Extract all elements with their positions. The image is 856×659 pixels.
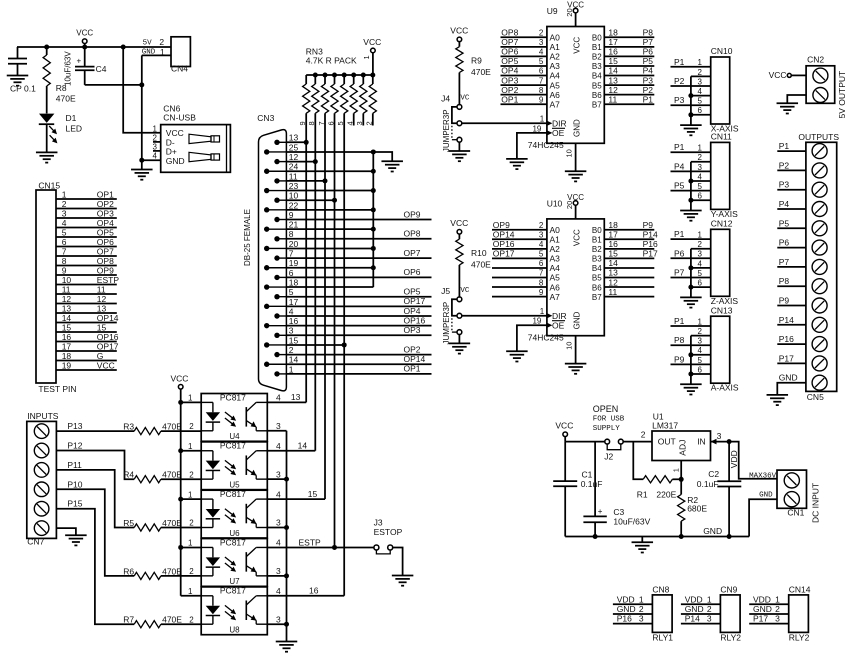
wire RN3 r5 to U8 pin4 net 16 [343,113,345,596]
U4 light arrows [225,412,236,427]
svg-text:11: 11 [289,171,298,181]
ground at rail [632,537,654,553]
U9 OE arrow [546,130,552,136]
svg-text:470E: 470E [162,566,182,576]
svg-text:3: 3 [62,208,67,218]
label CN15 net 11 [97,284,106,294]
U9 DIR arrow [546,121,552,127]
U6 light arrows [225,509,236,524]
label net OP16 [404,315,426,325]
svg-text:470E: 470E [162,470,182,480]
label net P1 at CN12 [674,229,685,239]
svg-text:P17: P17 [753,614,768,624]
svg-text:R5: R5 [123,518,134,528]
label R8 [56,83,67,93]
svg-text:B2: B2 [592,53,602,62]
label U9 B5 [592,81,602,90]
wire U9 B7 pin11 [604,103,654,105]
wire U10 A6 pin8 [492,286,547,288]
junction dot RN3 bus r2 [370,73,375,78]
svg-text:SUPPLY: SUPPLY [593,425,621,433]
wire CN15 pin 14 [56,322,117,324]
label U9 pin12 number [608,85,618,95]
label CN12 [711,219,733,229]
label U1 pin1 number [672,468,681,472]
wire CN12 pin6 [691,286,711,288]
svg-text:1: 1 [672,468,681,472]
label net OP8 at U9 [501,28,518,38]
label U10 pin15 number [608,249,618,259]
svg-text:P11: P11 [67,460,82,470]
svg-text:+: + [77,57,82,66]
svg-text:1: 1 [153,124,158,133]
label net P9 at CN13 [674,354,685,364]
label OPEN [593,404,619,414]
label U10 pin14 number [608,258,618,268]
ground at U10 OE [506,351,528,361]
wire U10 OE to ground [517,325,547,351]
label U7 pin3 number [276,566,281,576]
wire J5 to U10 DIR [462,315,547,317]
svg-text:OUT: OUT [658,436,676,446]
wire CN5 GND pin [777,383,806,395]
label CN3 pin 3 number [289,326,294,336]
label net OP17 [404,296,426,306]
CN3 pin 7 contact dot [274,255,286,260]
wire J4 shunt 1-2 [452,107,457,123]
wire CN12 pin4 [691,267,711,269]
label U9 74HC245 [528,140,564,150]
svg-text:6: 6 [698,279,703,288]
junction dot CN13 pin4 [688,352,693,357]
label U10 pin6 number [539,259,544,268]
svg-text:JUMPER3P: JUMPER3P [442,302,451,345]
wire J5 pin3 to ground [458,335,460,344]
svg-text:470E: 470E [471,67,491,77]
svg-text:VCC: VCC [567,193,584,202]
U8 phototransistor [246,596,267,624]
label GND rail [703,526,722,536]
label A-AXIS [711,383,739,393]
wire CN3 pin 16 [286,325,431,327]
label CN3 pin 2 number [289,345,294,355]
label CN8 [652,585,669,595]
svg-text:3: 3 [539,38,544,47]
label U10 pin12 number [608,277,618,287]
label U10 A2 [550,244,561,254]
label CN10 pin4 number [698,87,703,96]
wire CN15 pin 1 [56,198,117,200]
label CN15 net OP4 [97,218,114,228]
label net P7 at CN5 [779,257,790,267]
wire CN11 pin1 [671,151,711,153]
svg-text:1: 1 [188,442,193,451]
wire CN13 pin1 [671,325,711,327]
svg-text:5: 5 [62,227,67,237]
svg-text:12: 12 [608,277,618,287]
svg-text:OP17: OP17 [97,341,119,351]
label net OP16 at U10 [493,239,515,249]
wire CN13 pin4 [691,354,711,356]
svg-text:14: 14 [298,441,308,451]
resistor RN3 element 8 [312,75,319,113]
wire U10 B0 pin18 [604,229,654,231]
wire CN5 pin P16 [777,343,806,345]
CN7 screw 6 [34,521,49,536]
wire CN11 pin5 [671,190,711,192]
svg-text:19: 19 [532,317,541,326]
svg-text:4: 4 [276,586,281,596]
U10 OE arrow [546,323,552,329]
resistor R1 [643,476,681,483]
label U8 pin4 number [276,586,281,596]
label U9 B7 [592,100,602,109]
wire CN11 pin3 [671,170,711,172]
svg-text:OP5: OP5 [501,56,518,66]
wire CN5 pin P17 [777,362,806,364]
wire CN5 pin P2 [777,169,806,171]
label net P12 [67,441,82,451]
svg-text:CN-USB: CN-USB [163,113,196,123]
svg-text:B3: B3 [592,62,602,71]
wire CN15 pin 11 [56,293,117,295]
svg-text:CN4: CN4 [171,64,188,74]
wire CN3 pin 24 [286,170,373,172]
svg-text:P3: P3 [779,180,790,190]
label CN11 [711,132,732,142]
label CN3 pin 5 number [289,287,294,297]
label U10 pin18 number [608,220,618,230]
svg-text:A3: A3 [550,254,561,264]
svg-text:P17: P17 [643,249,658,259]
wire CN3 pin 2 [286,354,431,356]
label CN9 pin1 number [707,594,712,604]
ground at CN12 [680,287,702,308]
label RLY1 at CN8 [652,632,673,642]
label C1 [582,469,593,479]
label VC at J5 [460,287,470,295]
label CN15 pin 17 number [62,341,72,351]
label U10 pin16 number [608,239,618,249]
wire CN15 pin 8 [56,265,117,267]
label U6 pin3 number [276,518,281,528]
svg-text:3: 3 [276,614,281,624]
ground under CN6 [131,160,153,180]
label CN3 pin 19 number [289,258,299,268]
wire U10 A1 pin3 [492,238,547,240]
CN5 screw 11 [812,337,827,352]
label CN15 pin 2 number [62,199,67,209]
junction dot C3/gnd rail [593,534,598,539]
svg-text:B7: B7 [592,293,602,302]
label U5 pin2 number [189,470,194,479]
resistor RN3 element 3 [360,75,367,113]
wire OUT branch down to R1 [633,442,643,480]
label CN4 pin2 5V [143,39,153,47]
svg-text:RLY1: RLY1 [652,632,673,642]
label net P17 at CN14 [753,614,768,624]
svg-text:9: 9 [289,210,294,220]
svg-text:OP9: OP9 [404,209,421,219]
label CN15 net OP8 [97,256,114,266]
svg-text:13: 13 [608,75,618,85]
label net P1 at CN13 [674,316,685,326]
wire VCC to CN2 pin1 [791,74,806,76]
wire CN6 pin2 stub [153,141,161,143]
label U10 A7 [550,292,561,302]
wire CN9 pin2 [681,613,721,615]
junction dot RN3 bus r7 [323,73,328,78]
label net P16 at CN8 [617,614,632,624]
label C4 value 10uF/63V [64,51,73,86]
wire U5 pin4 [267,450,315,452]
svg-text:JUMPER3P: JUMPER3P [442,109,451,152]
junction dot RN3 bus r5 [342,73,347,78]
svg-text:6: 6 [539,259,544,268]
label U10 B6 [592,283,602,292]
wire U9 A7 pin9 [501,103,547,105]
label PC817 U7 [220,537,246,547]
svg-text:1: 1 [188,539,193,548]
connector CN9 body [720,595,740,633]
svg-text:470E: 470E [471,259,491,269]
svg-text:680E: 680E [687,504,707,514]
CN7 screw 1 [34,424,49,439]
wire CN11 pin6 [691,199,711,201]
wire CN12 pin2 [691,248,711,250]
label net P14 at CN9 [685,614,700,624]
label U10 A1 [550,234,561,244]
label CN15 pin 8 number [62,256,67,266]
wire CN15 pin 18 [56,360,117,362]
label net OP6 at U9 [501,47,518,57]
svg-text:DC INPUT: DC INPUT [811,483,821,523]
label U1 IN [697,436,706,446]
label CN4 pin2 number [159,37,164,47]
svg-text:VCC: VCC [171,373,189,383]
CN3 pin 25 contact dot [264,149,286,154]
svg-text:19: 19 [289,258,299,268]
svg-text:B5: B5 [592,81,602,90]
svg-text:15: 15 [608,56,618,66]
label CN10 pin3 number [698,77,703,86]
svg-text:OP6: OP6 [404,267,421,277]
wire VCC branch to CN6 pin1 [123,47,161,133]
svg-text:7: 7 [539,76,544,85]
svg-text:B1: B1 [592,43,602,52]
U10 DIR arrow [546,313,552,319]
U4 LED [201,402,220,430]
ground under D1 [36,152,58,162]
junction dot pin13/pullup [304,140,309,145]
ground at opto bus [276,642,298,652]
svg-text:P2: P2 [643,85,654,95]
svg-text:2: 2 [153,133,158,142]
junction dot pin19/gnd-bus [371,265,376,270]
label INPUTS [27,411,59,421]
label CN10 pin5 number [698,97,703,106]
label U9 pin11 number [608,94,617,104]
label U4 pin3 number [276,421,281,431]
label U4 pin1 number [188,394,193,403]
CN6 usb contact lower [189,152,220,161]
label CN6 pin3 number [153,143,158,152]
svg-text:3: 3 [276,566,281,576]
ground at CN10 [680,115,702,136]
svg-text:R7: R7 [123,615,134,625]
label U9 B3 [592,62,602,71]
wire U7 pin1 [181,546,202,548]
label net OP3 at U9 [501,75,518,85]
connector CN13 body [711,316,730,383]
label net P6 at CN12 [674,248,685,258]
jumper J4 pin1 circle [457,105,462,110]
junction dot pin25/gnd-bus [371,149,376,154]
wire U8 pin3 [267,623,286,625]
junction dot pin12/pullup [313,159,318,164]
svg-text:R4: R4 [123,470,134,480]
wire RN3 common bus [306,74,373,76]
svg-text:PC817: PC817 [220,489,246,499]
wire CN3 pin 1 [286,373,431,375]
wire CN3 pin 25 [286,151,373,153]
label CN15 pin 14 number [62,313,72,323]
label CN3 [257,113,274,123]
svg-text:17: 17 [608,229,618,239]
svg-text:14: 14 [289,355,299,365]
svg-text:3: 3 [698,77,703,86]
label net P5 at CN5 [779,218,790,228]
wire U9 OE to ground [517,133,547,159]
svg-text:OP3: OP3 [404,325,421,335]
svg-text:8: 8 [539,86,544,95]
label R3 [123,422,134,432]
label CN9 pin2 number [707,604,712,614]
CN5 screw 9 [812,298,827,313]
svg-text:GND: GND [753,604,772,614]
CN3 pin 5 contact dot [274,294,286,299]
wire VCC to J2 [565,441,605,443]
svg-text:VCC: VCC [450,218,468,228]
wire CN12 ground bus [690,249,692,287]
label CN3 pin 20 number [289,239,299,249]
label U1 pin2 number [641,430,646,440]
junction dot pin21/gnd-bus [371,227,376,232]
svg-text:12: 12 [62,294,72,304]
svg-text:74HC245: 74HC245 [528,140,564,150]
svg-text:OP2: OP2 [97,199,114,209]
wire U10 B6 pin12 [604,286,654,288]
junction dot CN12 pin4 [688,265,693,270]
svg-text:OP17: OP17 [404,296,426,306]
connector CN8 body [652,595,672,633]
label R6 value 470E [162,566,182,576]
svg-text:GND: GND [573,311,582,329]
label JUMPER3P J5 [442,302,451,345]
wire CN3 pin 22 [286,209,373,211]
connector CN3 DB-25 shell [259,130,287,391]
svg-text:1: 1 [775,594,780,604]
svg-text:P9: P9 [643,220,654,230]
svg-text:470E: 470E [162,615,182,625]
svg-text:PC817: PC817 [220,392,246,402]
label CN15 net OP6 [97,237,114,247]
svg-text:VCC: VCC [363,37,381,47]
label U9 A5 [550,80,561,90]
ground at J5 [449,343,471,353]
svg-text:9: 9 [62,265,67,275]
power net VCC at U10 [567,193,584,219]
svg-text:J4: J4 [441,94,450,104]
svg-text:P8: P8 [779,276,790,286]
label net P4 at U9 [643,66,654,76]
U5 phototransistor [246,451,267,479]
svg-text:20: 20 [289,239,299,249]
label net GND at CN14 [753,604,772,614]
label CN15 pin 11 number [62,284,71,294]
label X-AXIS [711,124,739,134]
label R9 [471,55,482,65]
svg-text:A0: A0 [550,225,561,235]
wire CN15 pin 17 [56,350,117,352]
label R10 [471,248,487,258]
svg-text:12: 12 [289,152,299,162]
svg-text:6: 6 [698,192,703,201]
label U9 OE [552,128,565,138]
wire CN4 GND pin1 [142,55,171,85]
CN3 pin 9 contact dot [274,217,286,222]
svg-text:LM317: LM317 [652,420,678,430]
label CN3 pin 14 number [289,355,299,365]
wire J3 to ground [393,548,403,576]
junction dot opto gnd bus U5 [284,477,289,482]
svg-text:P2: P2 [779,160,790,170]
svg-text:9: 9 [539,95,544,104]
svg-text:CN15: CN15 [38,181,60,191]
label CN12 pin1 number [698,231,703,240]
svg-text:GND: GND [685,604,704,614]
label U7 pin4 number [276,538,281,548]
wire CN3 pin 9 [286,219,431,221]
svg-text:470E: 470E [162,422,182,432]
svg-text:1: 1 [188,490,193,499]
wire CN5 pin P1 [777,150,806,152]
svg-text:J2: J2 [604,451,613,461]
svg-text:CN8: CN8 [652,585,669,595]
ground at CN13 [680,374,702,395]
svg-text:25: 25 [289,142,299,152]
label J3 [374,518,383,528]
resistor R2 [678,479,685,536]
label U10 pin20 [565,201,574,209]
svg-text:13: 13 [62,303,72,313]
svg-text:18: 18 [62,351,72,361]
wire U9 B6 pin12 [604,94,654,96]
label U1 OUT [658,436,676,446]
wire CN8 pin2 [613,613,653,615]
svg-text:12: 12 [97,294,107,304]
junction dot CN13 pin6 [688,372,693,377]
wire CN7 pin6 to ground [56,528,76,535]
wire CN15 pin 4 [56,227,117,229]
label CN8 pin1 number [639,594,644,604]
CN3 pin 23 contact dot [264,188,286,193]
wire U10 A2 pin4 [492,248,547,250]
label U5 pin3 number [276,469,281,479]
svg-text:3: 3 [639,614,644,624]
wire U10 B4 pin14 [604,267,654,269]
wire U9 GND pin10 [575,143,577,171]
